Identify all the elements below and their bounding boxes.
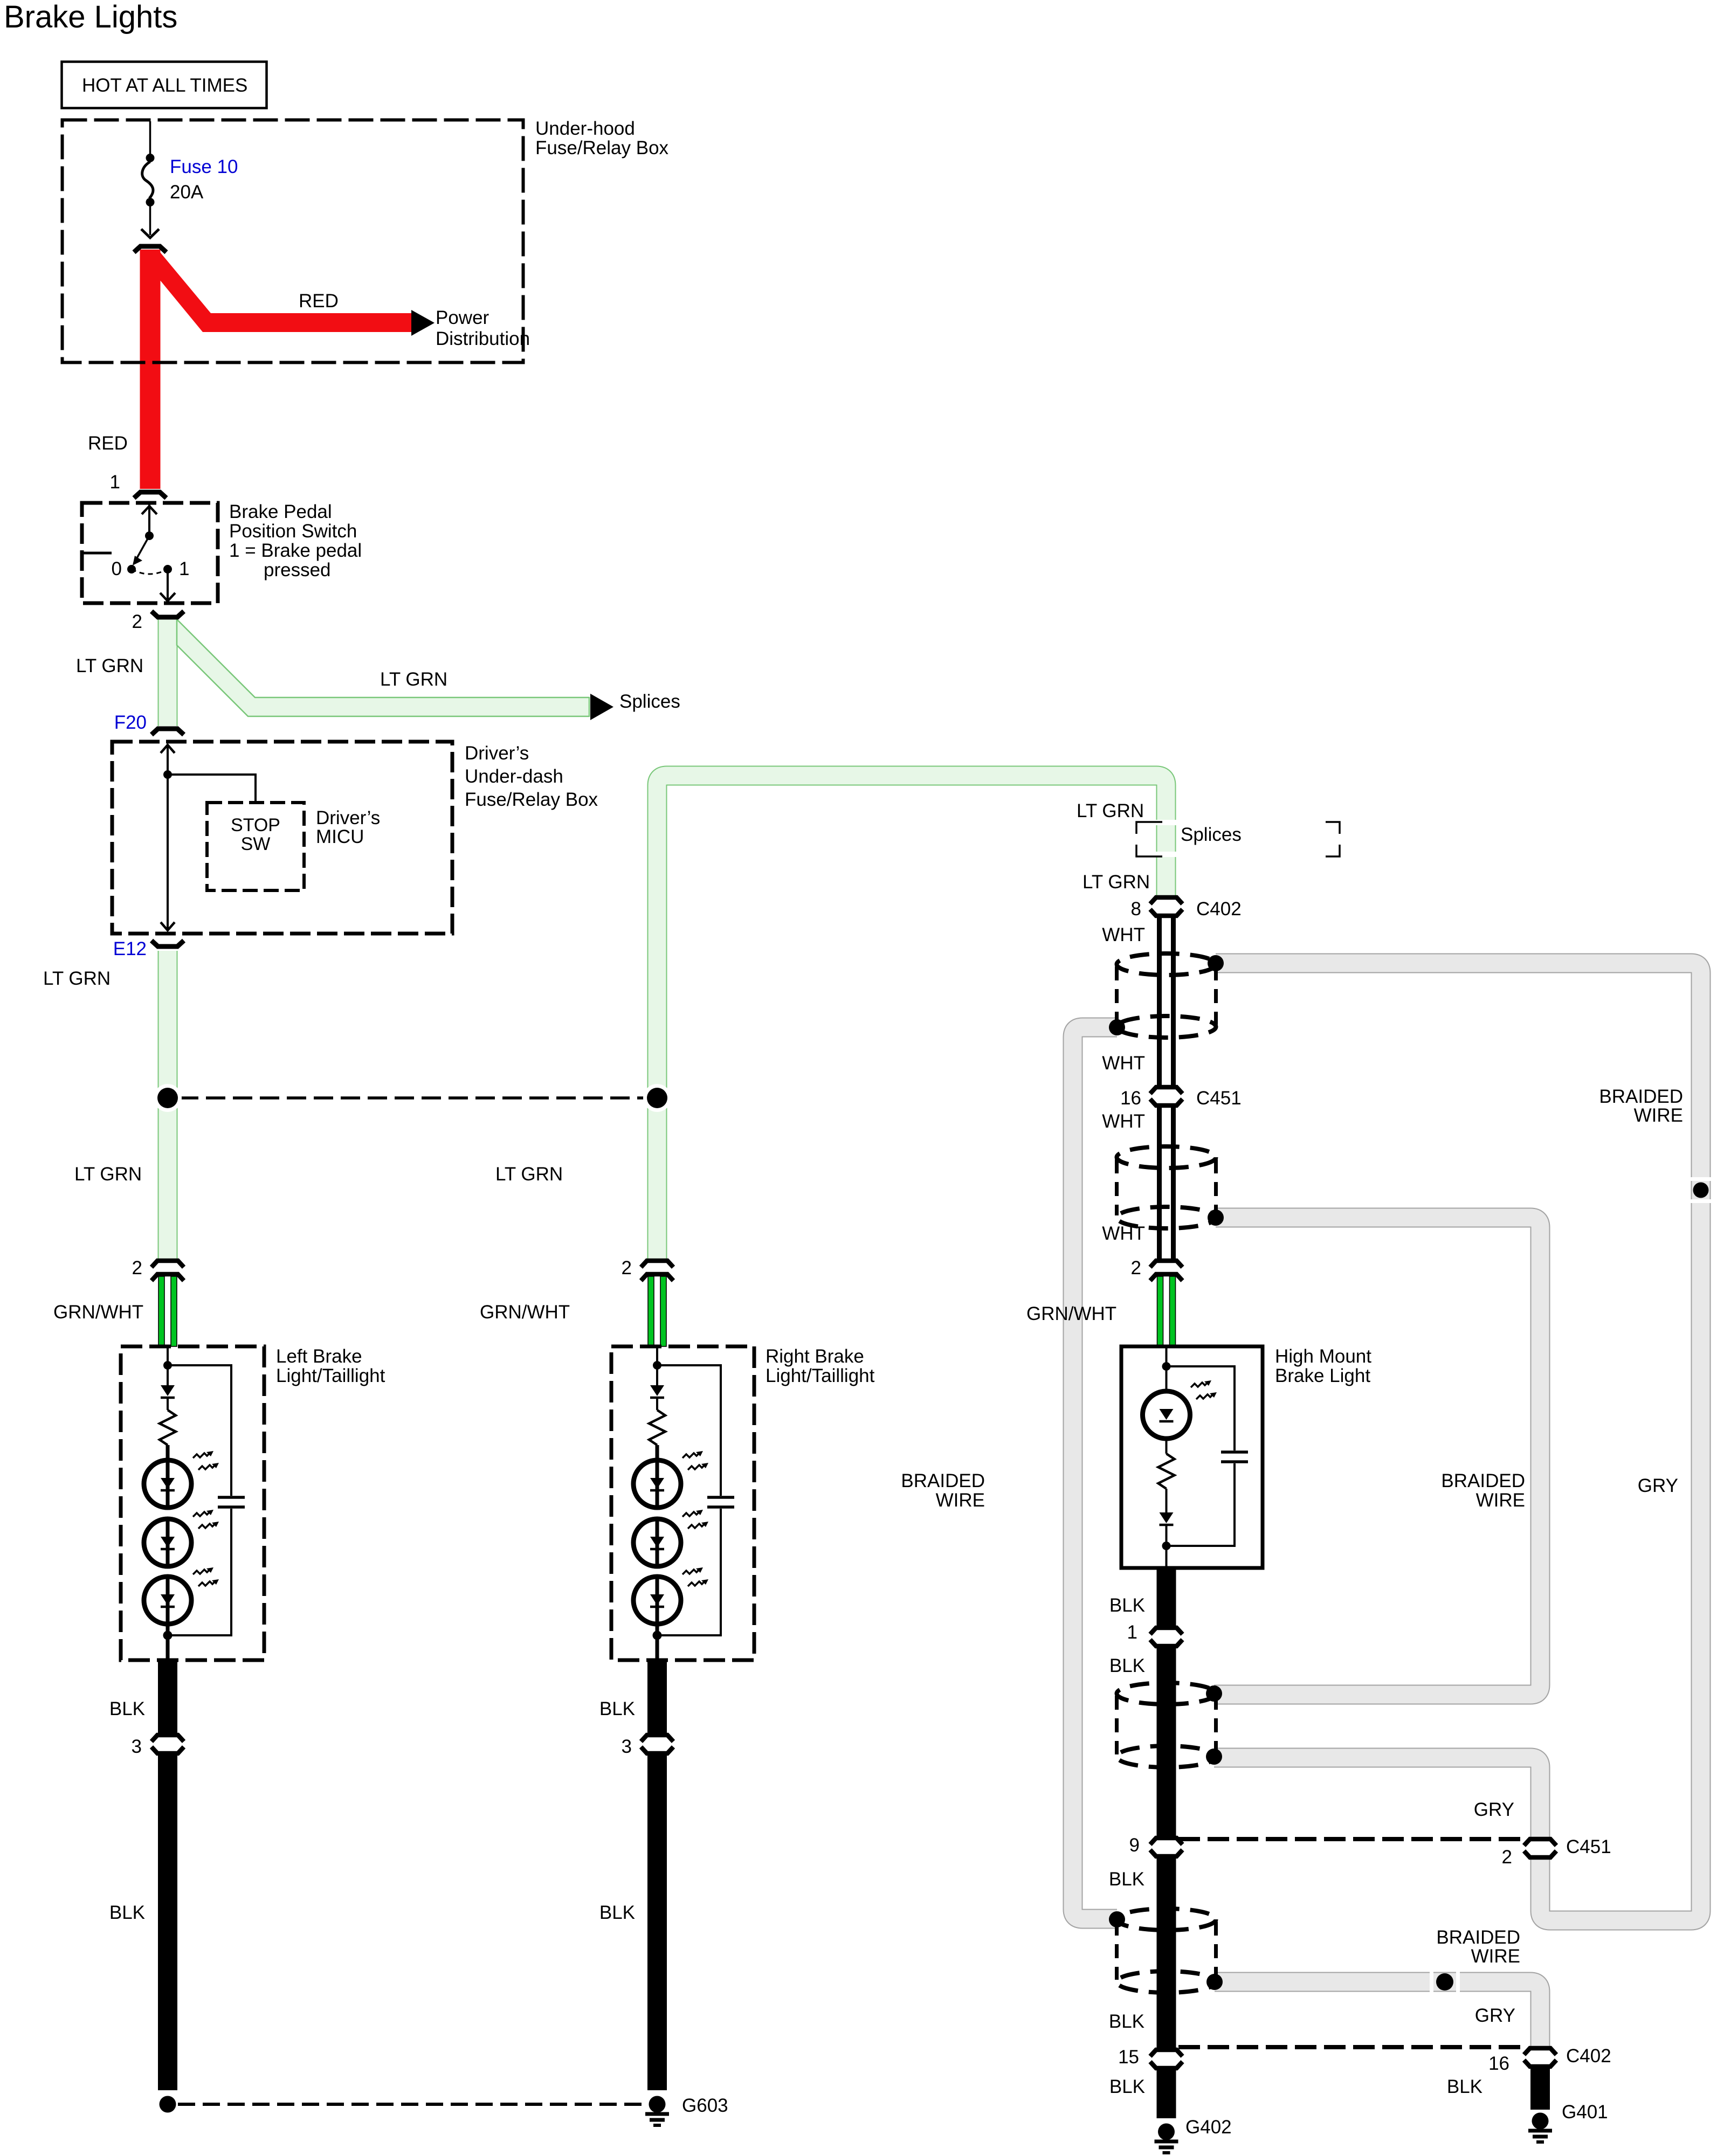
svg-text:BLK: BLK <box>109 1698 145 1719</box>
svg-text:Power: Power <box>436 307 489 328</box>
svg-text:WIRE: WIRE <box>1634 1105 1683 1126</box>
svg-text:GRN/WHT: GRN/WHT <box>53 1302 143 1323</box>
svg-text:2: 2 <box>1131 1257 1141 1279</box>
svg-text:1: 1 <box>1127 1622 1137 1643</box>
svg-text:2: 2 <box>1502 1847 1512 1868</box>
svg-text:pressed: pressed <box>264 559 331 581</box>
svg-text:E12: E12 <box>113 938 147 959</box>
svg-text:LT GRN: LT GRN <box>495 1164 563 1185</box>
svg-text:Position Switch: Position Switch <box>229 521 357 542</box>
svg-text:BRAIDED: BRAIDED <box>901 1470 985 1491</box>
svg-text:WIRE: WIRE <box>1471 1946 1520 1967</box>
svg-text:GRY: GRY <box>1474 1799 1514 1820</box>
svg-text:16: 16 <box>1488 2053 1509 2074</box>
svg-text:Light/Taillight: Light/Taillight <box>276 1365 385 1386</box>
svg-text:SW: SW <box>241 834 271 854</box>
svg-text:G603: G603 <box>682 2095 728 2116</box>
svg-text:9: 9 <box>1129 1835 1140 1856</box>
svg-text:BLK: BLK <box>109 1902 145 1923</box>
svg-text:C402: C402 <box>1566 2046 1611 2067</box>
svg-text:Brake Light: Brake Light <box>1275 1365 1370 1386</box>
svg-text:LT GRN: LT GRN <box>43 968 111 989</box>
svg-text:8: 8 <box>1131 899 1141 920</box>
svg-text:BLK: BLK <box>1109 2076 1145 2097</box>
svg-text:Right Brake: Right Brake <box>766 1346 864 1367</box>
svg-text:BRAIDED: BRAIDED <box>1599 1086 1683 1107</box>
svg-text:RED: RED <box>88 433 128 454</box>
svg-text:Brake Pedal: Brake Pedal <box>229 501 332 522</box>
svg-text:BLK: BLK <box>599 1902 635 1923</box>
svg-text:C451: C451 <box>1196 1088 1242 1109</box>
svg-text:WHT: WHT <box>1102 1223 1145 1244</box>
svg-text:1 = Brake pedal: 1 = Brake pedal <box>229 540 362 561</box>
svg-text:WIRE: WIRE <box>1476 1490 1525 1511</box>
svg-text:C451: C451 <box>1566 1836 1611 1857</box>
svg-text:BLK: BLK <box>1109 1869 1144 1890</box>
svg-text:Fuse 10: Fuse 10 <box>170 156 238 177</box>
svg-text:1: 1 <box>110 472 120 493</box>
svg-text:GRY: GRY <box>1475 2005 1515 2026</box>
svg-text:Light/Taillight: Light/Taillight <box>766 1365 875 1386</box>
svg-text:20A: 20A <box>170 182 204 203</box>
svg-text:BLK: BLK <box>1109 1595 1145 1616</box>
svg-text:3: 3 <box>132 1736 142 1757</box>
svg-text:LT GRN: LT GRN <box>1082 872 1150 893</box>
svg-text:0: 0 <box>112 558 122 579</box>
svg-text:LT GRN: LT GRN <box>1077 800 1144 821</box>
svg-text:GRY: GRY <box>1638 1475 1678 1496</box>
svg-text:RED: RED <box>299 291 339 312</box>
svg-text:BRAIDED: BRAIDED <box>1436 1927 1520 1948</box>
svg-text:BLK: BLK <box>599 1698 635 1719</box>
svg-text:Fuse/Relay Box: Fuse/Relay Box <box>535 137 669 158</box>
svg-text:F20: F20 <box>114 712 147 733</box>
svg-text:2: 2 <box>132 611 142 632</box>
svg-text:C402: C402 <box>1196 899 1242 920</box>
svg-text:High Mount: High Mount <box>1275 1346 1371 1367</box>
svg-text:BLK: BLK <box>1109 1655 1145 1676</box>
svg-text:Under-dash: Under-dash <box>465 766 563 787</box>
svg-text:Left Brake: Left Brake <box>276 1346 362 1367</box>
svg-text:GRN/WHT: GRN/WHT <box>480 1302 570 1323</box>
svg-text:Splices: Splices <box>619 691 680 712</box>
svg-text:3: 3 <box>622 1736 632 1757</box>
svg-text:BLK: BLK <box>1447 2076 1482 2097</box>
svg-text:Fuse/Relay Box: Fuse/Relay Box <box>465 789 598 810</box>
svg-text:HOT AT ALL TIMES: HOT AT ALL TIMES <box>82 75 247 96</box>
svg-text:MICU: MICU <box>316 826 364 847</box>
svg-text:Distribution: Distribution <box>436 328 530 349</box>
svg-text:BLK: BLK <box>1109 2011 1144 2032</box>
svg-text:Driver’s: Driver’s <box>465 743 529 764</box>
svg-text:Brake Lights: Brake Lights <box>4 0 177 34</box>
svg-text:WHT: WHT <box>1102 1111 1145 1132</box>
svg-text:WHT: WHT <box>1102 924 1145 945</box>
svg-text:WIRE: WIRE <box>936 1490 985 1511</box>
svg-text:G401: G401 <box>1562 2102 1608 2123</box>
svg-text:Under-hood: Under-hood <box>535 118 635 139</box>
svg-text:Driver’s: Driver’s <box>316 807 380 828</box>
svg-text:1: 1 <box>179 558 189 579</box>
svg-text:Splices: Splices <box>1181 824 1242 845</box>
svg-text:LT GRN: LT GRN <box>74 1164 142 1185</box>
svg-text:GRN/WHT: GRN/WHT <box>1026 1303 1116 1324</box>
svg-text:WHT: WHT <box>1102 1053 1145 1074</box>
svg-text:BRAIDED: BRAIDED <box>1441 1470 1525 1491</box>
svg-text:15: 15 <box>1118 2047 1139 2068</box>
svg-text:2: 2 <box>622 1257 632 1279</box>
svg-text:G402: G402 <box>1185 2117 1232 2138</box>
svg-text:LT GRN: LT GRN <box>76 655 143 676</box>
svg-text:2: 2 <box>132 1257 142 1279</box>
svg-text:16: 16 <box>1120 1088 1141 1109</box>
svg-text:STOP: STOP <box>231 815 280 835</box>
svg-text:LT GRN: LT GRN <box>380 669 447 690</box>
